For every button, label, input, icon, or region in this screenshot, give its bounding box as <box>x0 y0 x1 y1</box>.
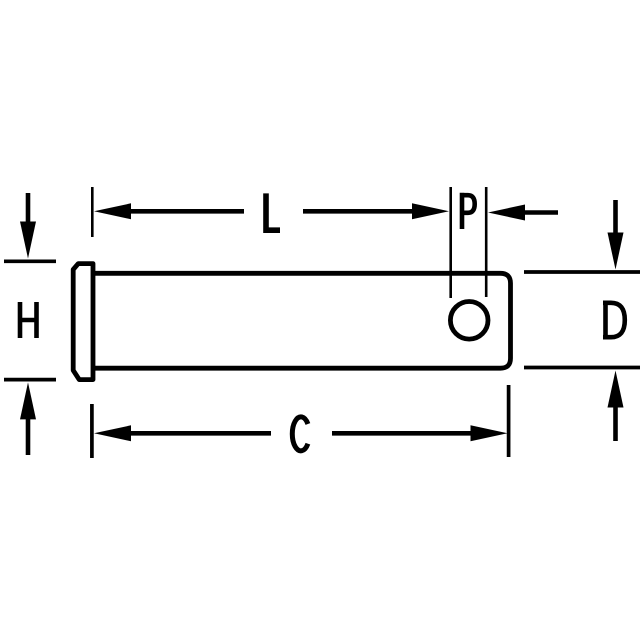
label C <box>292 417 308 451</box>
H top arrow pointing down <box>20 193 36 259</box>
dimension line C, left segment with left-pointing arrowhead <box>94 425 271 441</box>
H bottom arrow pointing up <box>20 382 36 455</box>
extension line, D bottom (pin bottom, right of pin) <box>524 366 640 370</box>
pin body (shank with rounded right end) <box>93 273 511 368</box>
label D <box>603 303 625 337</box>
label P <box>460 193 475 229</box>
pin head (flanged head, left end) <box>73 264 93 380</box>
extension line, H bottom (head bottom) <box>4 378 56 382</box>
hole (cotter pin hole near right end) <box>450 302 488 340</box>
extension line, H top (head top) <box>4 259 56 263</box>
extension line, C right (below pin right end) <box>507 385 511 457</box>
label H <box>20 302 37 338</box>
extension line, P left (hole left side) <box>449 187 452 298</box>
extension line, L left (at head face) <box>91 187 94 237</box>
dimension line L, right segment with right-pointing arrowhead <box>303 203 449 219</box>
extension line, P right (hole right side) <box>485 187 488 297</box>
dimension line L, left segment with left-pointing arrowhead <box>94 203 244 219</box>
D bottom arrow pointing up <box>608 371 624 442</box>
D top arrow pointing down <box>608 200 624 270</box>
dimension line C, right segment with right-pointing arrowhead <box>332 425 508 441</box>
extension line, D top (pin top, right of pin) <box>524 270 640 274</box>
extension line, C left (below head face) <box>90 404 94 458</box>
label L <box>263 193 280 230</box>
dimension line P, right arrow pointing left at hole right side <box>488 205 558 221</box>
